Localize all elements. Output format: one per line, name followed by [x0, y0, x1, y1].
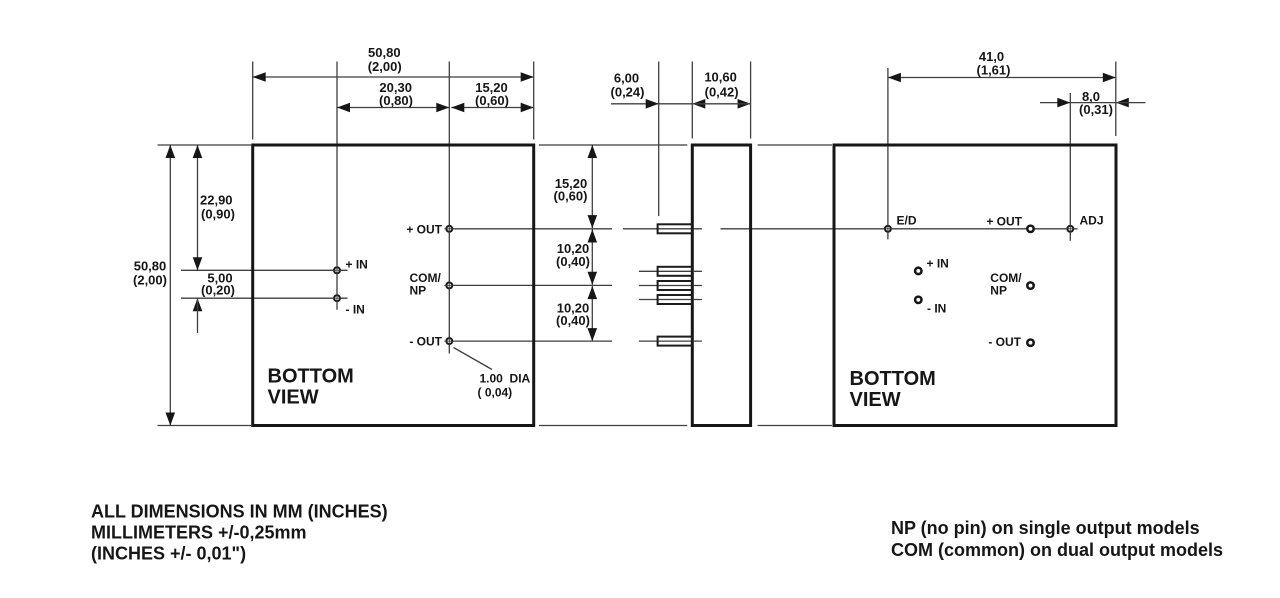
svg-text:+ OUT: + OUT — [986, 214, 1022, 228]
svg-text:+ IN: + IN — [346, 258, 368, 272]
svg-text:(0,31): (0,31) — [1079, 102, 1113, 117]
svg-text:(0,60): (0,60) — [475, 93, 509, 108]
svg-text:(1,61): (1,61) — [977, 63, 1011, 78]
svg-text:- OUT: - OUT — [988, 335, 1021, 349]
svg-text:10,60: 10,60 — [704, 70, 737, 85]
svg-text:(INCHES +/- 0,01"): (INCHES +/- 0,01") — [91, 544, 246, 564]
svg-text:(0,42): (0,42) — [705, 85, 739, 100]
svg-text:(0,40): (0,40) — [556, 254, 590, 269]
svg-text:50,80: 50,80 — [134, 259, 167, 274]
svg-text:ADJ: ADJ — [1080, 214, 1104, 228]
svg-text:(0,20): (0,20) — [201, 283, 235, 298]
svg-text:VIEW: VIEW — [268, 387, 319, 409]
svg-text:(0,80): (0,80) — [379, 93, 413, 108]
svg-text:( 0,04): ( 0,04) — [478, 386, 513, 400]
svg-text:NP: NP — [990, 284, 1007, 298]
svg-text:- OUT: - OUT — [409, 334, 442, 348]
svg-text:NP: NP — [410, 284, 427, 298]
svg-text:(2,00): (2,00) — [368, 59, 402, 74]
svg-text:(0,40): (0,40) — [556, 313, 590, 328]
svg-text:BOTTOM: BOTTOM — [850, 368, 936, 390]
svg-text:+ IN: + IN — [927, 257, 949, 271]
svg-text:- IN: - IN — [346, 303, 365, 317]
svg-text:(0,60): (0,60) — [554, 189, 588, 204]
svg-text:VIEW: VIEW — [850, 389, 901, 411]
svg-text:6,00: 6,00 — [614, 71, 639, 86]
svg-text:- IN: - IN — [927, 301, 946, 315]
svg-text:E/D: E/D — [897, 214, 917, 228]
svg-text:22,90: 22,90 — [200, 193, 233, 208]
svg-text:+ OUT: + OUT — [406, 222, 442, 236]
svg-text:NP (no pin) on single output m: NP (no pin) on single output models — [891, 518, 1200, 538]
svg-text:ALL DIMENSIONS IN MM (INCHES): ALL DIMENSIONS IN MM (INCHES) — [91, 502, 388, 522]
svg-text:1.00 DIA: 1.00 DIA — [480, 372, 531, 386]
svg-text:50,80: 50,80 — [368, 45, 401, 60]
svg-text:BOTTOM: BOTTOM — [268, 366, 354, 388]
svg-text:(2,00): (2,00) — [133, 273, 167, 288]
svg-text:MILLIMETERS +/-0,25mm: MILLIMETERS +/-0,25mm — [91, 523, 307, 543]
svg-text:COM (common) on dual output mo: COM (common) on dual output models — [891, 540, 1223, 560]
svg-text:(0,90): (0,90) — [201, 207, 235, 222]
svg-text:(0,24): (0,24) — [611, 85, 645, 100]
